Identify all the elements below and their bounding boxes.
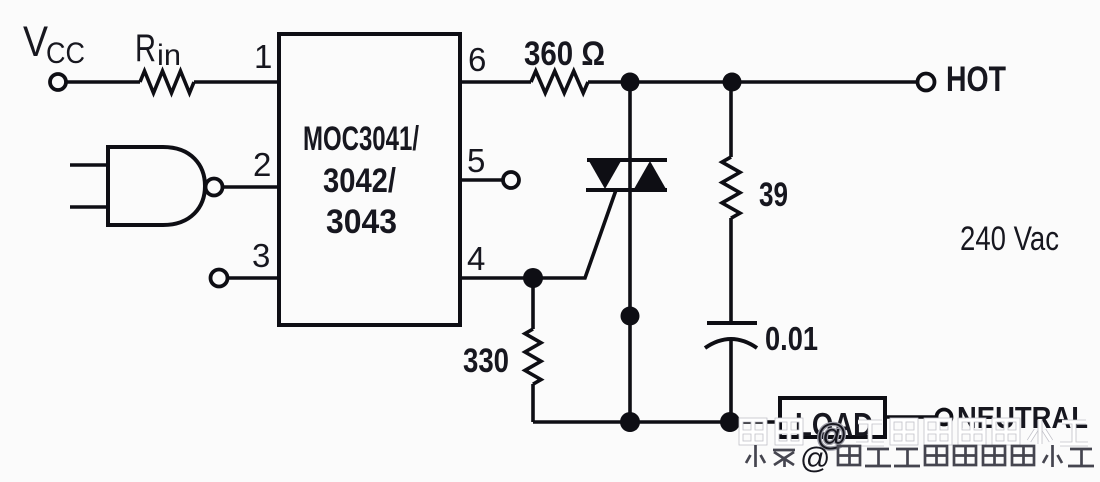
svg-text:@: @ (800, 442, 830, 475)
wire resistor to HOT (588, 80, 918, 84)
wire 330 to bottom rail (531, 384, 535, 422)
svg-text:0.01: 0.01 (765, 320, 818, 357)
resistor 360 ohm (531, 71, 588, 93)
watermark line1 outline layer (741, 417, 1088, 452)
terminal VCC (50, 74, 66, 90)
triac Q1 top bar (587, 158, 667, 162)
wire pin 4 (460, 276, 533, 280)
node below triac (621, 307, 640, 326)
svg-text:4: 4 (467, 240, 485, 277)
node top-left junction (621, 73, 640, 92)
triac Q1 right triangle (634, 161, 666, 189)
NAND gate U1 (108, 147, 205, 225)
wire bottom rail (533, 420, 779, 424)
NAND output bubble (206, 179, 223, 196)
resistor 39 (722, 157, 740, 218)
NAND input stub bottom (70, 205, 108, 209)
terminal NEUTRAL (937, 410, 952, 425)
watermark line2 头条 (746, 442, 1094, 475)
svg-text:MOC3041/: MOC3041/ (303, 120, 419, 158)
svg-text:R: R (135, 27, 156, 70)
terminal pin 5 (503, 172, 519, 188)
wire pin 5 (460, 178, 503, 182)
svg-text:360 Ω: 360 Ω (524, 35, 605, 73)
triac Q1 left triangle (589, 161, 621, 189)
svg-text:HOT: HOT (946, 60, 1006, 99)
resistor 330 (525, 329, 541, 384)
node pin 4 junction (523, 268, 543, 288)
wire 39 branch top (729, 82, 733, 157)
svg-text:5: 5 (467, 142, 485, 179)
wire LOAD to NEUTRAL (887, 415, 937, 419)
wire triac gate (533, 190, 616, 278)
wire pin 6 to resistor (460, 80, 531, 84)
svg-text:3043: 3043 (326, 203, 397, 241)
svg-text:240 Vac: 240 Vac (960, 220, 1059, 258)
node bottom rail at triac line (620, 412, 640, 432)
wire Rin to pin 1 (194, 80, 278, 84)
svg-text:in: in (157, 39, 181, 72)
wire triac main vertical (628, 82, 632, 422)
wire pin 3 (228, 276, 278, 280)
svg-text:39: 39 (759, 176, 788, 214)
node bottom rail at cap branch (720, 412, 740, 432)
wire capacitor to bottom rail (729, 340, 733, 422)
capacitor C1 bottom plate (705, 339, 757, 348)
svg-text:1: 1 (254, 38, 272, 75)
svg-text:3: 3 (252, 237, 270, 274)
IC U2 MOC3041 box (279, 34, 460, 325)
NAND input stub top (70, 163, 108, 167)
svg-text:330: 330 (463, 342, 509, 380)
svg-text:CC: CC (46, 37, 85, 70)
wire 39 to capacitor (729, 218, 733, 323)
capacitor C1 top plate (707, 321, 757, 325)
svg-text:6: 6 (468, 41, 486, 78)
watermark line1 white layer (741, 417, 1088, 452)
terminal pin 3 (211, 270, 228, 287)
wire NAND to pin 2 (223, 185, 278, 189)
resistor Rin (140, 71, 194, 93)
wire pin4 node down to 330 (531, 278, 535, 329)
terminal HOT (918, 74, 935, 91)
svg-text:3042/: 3042/ (323, 162, 396, 200)
triac Q1 bottom bar (586, 188, 667, 192)
svg-text:2: 2 (253, 146, 271, 183)
node top-right junction (723, 73, 742, 92)
LOAD box (780, 398, 885, 437)
svg-text:V: V (23, 18, 48, 66)
wire VCC to Rin (66, 80, 140, 84)
